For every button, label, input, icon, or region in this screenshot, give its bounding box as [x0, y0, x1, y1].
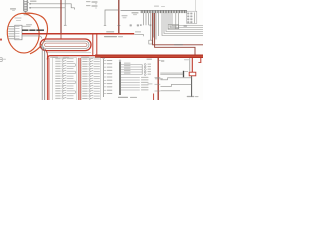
label right of x=119 wire: [122, 15, 128, 16]
red vertical x=158: [157, 58, 159, 100]
ticks across red vertical: [155, 76, 161, 78]
red fuse box: [189, 72, 196, 76]
net label W-L (row1): [86, 0, 91, 3]
tiny circle top of x=120: [119, 60, 121, 62]
label right of J1 pin1: [30, 1, 37, 2]
superscript label TMS: [147, 59, 153, 60]
label near bus end: [135, 31, 141, 32]
plug bar symbol: [183, 71, 185, 77]
gray continuation of bus: [134, 33, 143, 35]
label above comb: [154, 6, 159, 7]
red vertical pair x=47-49: [45, 50, 47, 101]
stepped row 1: [161, 78, 192, 80]
arrowhead marks on J1 wires: [29, 3, 31, 4]
text in ellipse top: [15, 18, 22, 19]
upper rows from x=120: [121, 63, 142, 75]
dark red drop wire x=152: [153, 13, 203, 45]
label CA (above ellipse): [10, 8, 16, 9]
staircase fan of 6 wires to right edge: [162, 13, 203, 36]
hand-drawn red ellipse: [6, 12, 41, 54]
tick at bottom of x=65 wire: [64, 24, 67, 26]
red outer loop (racetrack): [40, 39, 91, 51]
double wire to plug: [160, 72, 183, 74]
junction marks row y=25: [130, 24, 132, 26]
connector C2 pin comb: [141, 10, 186, 13]
gray vertical x=191.5: [191, 76, 193, 97]
red vertical x=192: [191, 58, 193, 72]
small box on right of comb drops: [168, 24, 178, 28]
label R1: [159, 60, 161, 62]
gray wire from C3 y=36: [22, 36, 42, 39]
vertical join x=142: [141, 65, 143, 75]
wire L to x=105: [105, 10, 119, 26]
red stub x=200 with tick: [200, 58, 202, 63]
pin strip connector x=103: [103, 59, 105, 97]
wire J1 pin B: [29, 7, 65, 9]
connector J1 (top-left): [24, 0, 29, 11]
two comb drops with arrowheads: [175, 13, 177, 28]
red drop wire x=97: [96, 34, 98, 55]
junction + on x=119 wire: [117, 24, 120, 27]
label above red bus: [106, 31, 114, 32]
dark red drop wire x=154: [155, 13, 195, 55]
red bus wire y=33.5: [22, 33, 134, 35]
black thick wire from C3: [22, 29, 44, 31]
thick red power bus (body): [95, 55, 203, 58]
gray inner loop 1: [42, 41, 89, 49]
gray vertical wire x=42: [40, 45, 42, 100]
white notches on black wire: [28, 30, 31, 32]
label SB-AM 30A below bus: [104, 36, 117, 37]
label under J1: [23, 13, 31, 14]
plus-symbol block contents: [187, 12, 194, 23]
dark vertical bus x=120: [119, 62, 121, 95]
label SB-9 10A: [187, 96, 195, 97]
faint border vertical top-right: [195, 0, 197, 11]
J1 bottom tick: [25, 11, 27, 14]
relay rows right column: [82, 58, 100, 99]
label right of diode: [184, 59, 189, 60]
pin labels left of C3: [8, 26, 14, 39]
gray vertical wire x=44: [43, 48, 45, 101]
short row 3: [161, 90, 181, 92]
labels under feeder line: [50, 57, 58, 58]
connector C2 top rail: [121, 9, 188, 11]
ellipse tail swoosh: [24, 13, 48, 54]
red fragment left edge: [0, 39, 2, 41]
wire C3 row1 gray: [22, 25, 31, 27]
net label W-R (row2): [86, 4, 91, 7]
short comb drop wires: [144, 13, 149, 25]
faint line under loop: [46, 51, 91, 53]
label 1P5 left of comb: [132, 12, 139, 13]
gray vertical wire at x=65: [64, 0, 66, 25]
wire J1 pin A (top): [29, 4, 74, 10]
thick red power bus (lower edge): [95, 56, 203, 58]
dark-red vertical wire at x=61: [60, 0, 62, 34]
plus-symbol block box: [187, 11, 197, 23]
inner loop 2 (light red): [45, 43, 87, 47]
comb drop wire with fuse box: [150, 13, 152, 40]
end symbols column x=144-151: [144, 64, 151, 76]
right column border: [81, 58, 100, 100]
label SB 30A on red stairs: [174, 44, 183, 45]
bottom label a-24: [118, 97, 128, 98]
left column border: [52, 58, 77, 100]
labels left of red vertical: [155, 78, 163, 79]
lower rows from x=120: [121, 77, 149, 91]
bracket joins left column: [74, 64, 76, 94]
comb drop wires mid: [153, 13, 155, 38]
red double vertical divider: [78, 58, 80, 100]
stepped row 2: [161, 84, 192, 86]
red feeder line from bundle: [47, 56, 96, 60]
stub x=61 bus to loop: [60, 34, 62, 40]
connector C3 in ellipse: [15, 25, 22, 40]
gray stub x=189.8: [189, 58, 191, 72]
red mark bottom-left of right block: [153, 94, 155, 101]
cut component left edge: [0, 57, 2, 59]
dark-red vertical wire at x=119: [118, 0, 120, 34]
relay rows left column: [55, 58, 73, 99]
thick red power bus (upper edge): [95, 54, 203, 56]
red drop wire x=93: [92, 34, 94, 55]
